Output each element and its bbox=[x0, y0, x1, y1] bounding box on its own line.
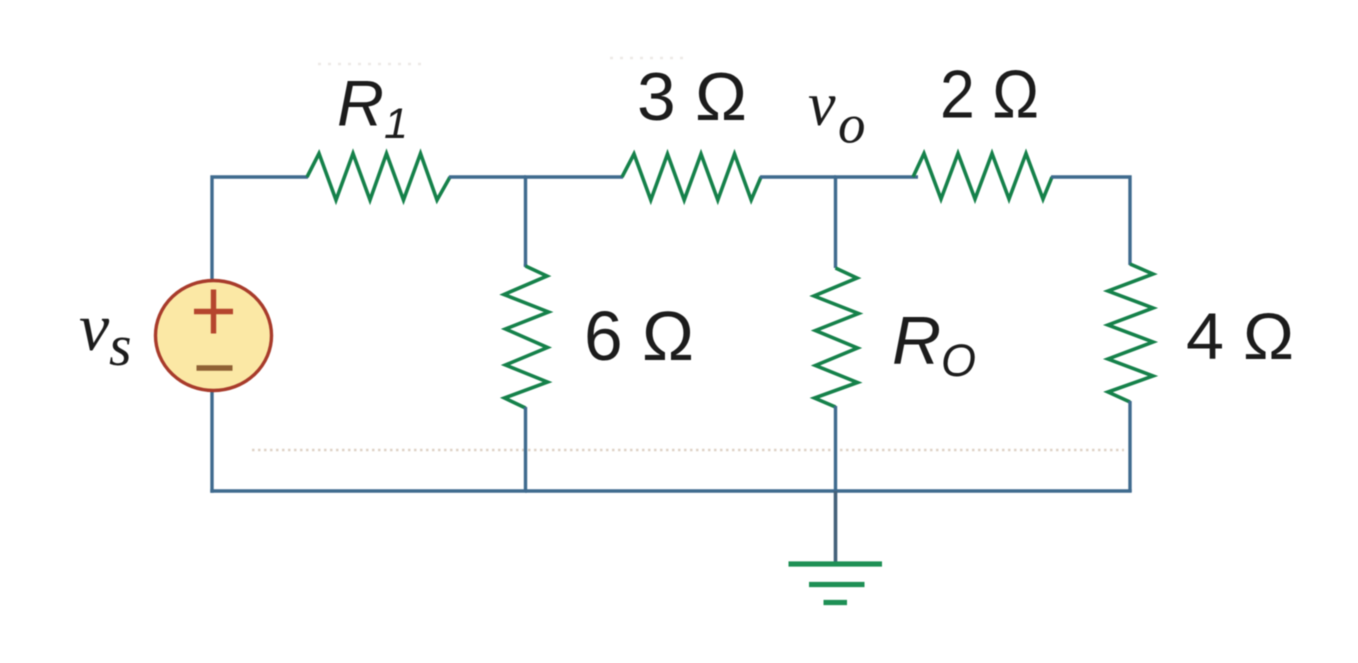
wire: bottom left segment (6 ohm branch to source) bbox=[210, 489, 527, 492]
svg-text:6 Ω: 6 Ω bbox=[584, 297, 694, 375]
faint dotted line above bottom wire bbox=[252, 449, 1124, 451]
resistor 4 ohm (vertical zigzag) bbox=[1108, 264, 1153, 402]
wire: left vertical below source bbox=[210, 391, 213, 493]
wire: 3 ohm to node vo bbox=[760, 175, 836, 178]
wire: node vo to 2 ohm bbox=[834, 175, 918, 178]
resistor 2 ohm (horizontal zigzag) bbox=[913, 154, 1052, 200]
wire: node A to 3 ohm bbox=[524, 175, 623, 178]
label vs bbox=[79, 289, 132, 378]
plus sign of source bbox=[194, 290, 233, 334]
svg-text:4 Ω: 4 Ω bbox=[1186, 299, 1294, 373]
wire: top-left horizontal (source top to R1) bbox=[212, 177, 308, 280]
wire: 2 ohm to top-right corner down to 4 ohm bbox=[1051, 177, 1130, 265]
svg-text:2 Ω: 2 Ω bbox=[940, 57, 1039, 133]
node vo (junction of 3ohm, 2ohm, RO branch) bbox=[834, 177, 837, 268]
wire: RO bottom lead bbox=[834, 406, 837, 491]
minus sign of source bbox=[197, 365, 233, 370]
label vo bbox=[808, 71, 866, 155]
svg-text:v: v bbox=[808, 71, 836, 139]
wire: 4 ohm to bottom-right corner bbox=[1128, 401, 1131, 492]
resistor 6 ohm (vertical zigzag) bbox=[504, 266, 549, 408]
node A (junction of R1, 3ohm, 6ohm branch) bbox=[524, 177, 527, 266]
ground symbol bbox=[789, 564, 883, 603]
voltage source vs (circle with plus/minus) bbox=[156, 281, 272, 391]
resistor R1 (horizontal zigzag) bbox=[307, 154, 450, 201]
resistor 6 ohm branch: top lead bbox=[524, 264, 527, 267]
wire: 6 ohm bottom lead bbox=[524, 407, 527, 491]
wire: bottom right segment (corner to ground node) bbox=[835, 489, 1132, 492]
svg-text:3 Ω: 3 Ω bbox=[637, 59, 747, 135]
wire: R1 to node A bbox=[449, 175, 526, 178]
label R1 bbox=[337, 67, 408, 149]
resistor 3 ohm (horizontal zigzag) bbox=[622, 154, 761, 200]
svg-text:v: v bbox=[79, 289, 110, 365]
svg-text:R: R bbox=[892, 303, 941, 379]
scan artifact dotted smudge above R1 bbox=[318, 58, 690, 64]
svg-text:s: s bbox=[109, 313, 132, 378]
svg-text:O: O bbox=[941, 335, 976, 386]
svg-text:1: 1 bbox=[384, 100, 408, 148]
wire: ground stem bbox=[834, 491, 838, 564]
svg-text:o: o bbox=[838, 94, 866, 155]
wire: bottom middle segment (ground node to 6 ohm branch) bbox=[525, 489, 837, 492]
resistor RO (vertical zigzag) bbox=[814, 268, 859, 407]
svg-text:R: R bbox=[337, 67, 384, 140]
label RO bbox=[892, 303, 976, 386]
